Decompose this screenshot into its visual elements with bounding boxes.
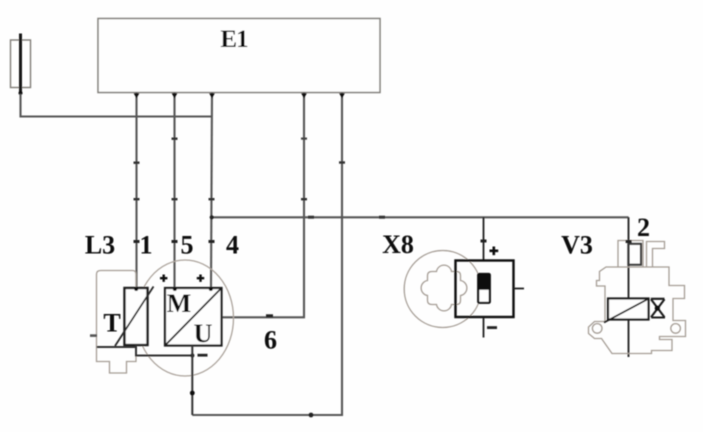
svg-text:6: 6 [264, 326, 277, 355]
svg-text:2: 2 [637, 213, 650, 242]
junction dot motor pin 4 [209, 287, 213, 291]
thermistor diagonal [115, 287, 154, 347]
tick wire 5 upper [339, 161, 345, 163]
branch wire to lighter X8 plus [483, 217, 485, 260]
wire 2 E1 pin to motor plus [173, 93, 175, 289]
tick wire 4 upper [301, 138, 307, 140]
svg-text:4: 4 [226, 231, 239, 260]
ECU box E1 [98, 19, 380, 93]
junction dot motor pin 5 [173, 287, 177, 291]
motor box diagonal [166, 289, 222, 346]
wire motor minus down [191, 346, 193, 416]
tick wire 2 middle [172, 198, 178, 200]
tick branch X8 [481, 240, 487, 243]
tick wire 2 upper [172, 138, 178, 140]
connector pin 2 terminal [628, 244, 641, 265]
valve V3 ear circle left [592, 324, 602, 334]
minus mark X8 [487, 326, 497, 329]
pin dot wire 2 [172, 93, 178, 98]
svg-text:V3: V3 [561, 231, 593, 260]
pump motor box M/U [165, 288, 222, 346]
tick V3 wire pin 2 [626, 240, 632, 243]
wire V3 drop [628, 217, 630, 357]
tick bus at 311 [308, 216, 314, 219]
stub X8 right [514, 288, 525, 290]
svg-text:M: M [167, 289, 192, 318]
pin dot wire 5 [339, 93, 345, 98]
fuse element line [19, 34, 22, 95]
junction dot bottom return [309, 413, 314, 418]
lighter X8 clover [421, 265, 467, 311]
pin dot wire 4 [301, 93, 307, 98]
fuse body [11, 40, 31, 88]
wire fuse to node on wire 3 [21, 94, 213, 117]
valve V3 ear circle right [671, 324, 681, 334]
sensor L3 connector outline [97, 271, 137, 374]
junction dot bus start [210, 215, 214, 219]
solenoid coil box [608, 299, 649, 320]
tick wire 3 middle [209, 198, 215, 200]
tick wire 1 pin 1 [134, 240, 140, 243]
tick wire 4 middle [301, 198, 307, 200]
svg-text:1: 1 [140, 231, 153, 260]
tick wire 1 upper [134, 162, 140, 164]
thermistor ground strap to case [97, 346, 136, 348]
svg-text:5: 5 [181, 231, 194, 260]
wire 3 E1 pin to motor top right [211, 93, 212, 289]
svg-text:E1: E1 [220, 26, 248, 53]
valve V3 silhouette [589, 241, 686, 354]
svg-text:T: T [103, 309, 120, 338]
tick wire 1 middle [134, 198, 140, 200]
fuse bottom junction dot [19, 91, 23, 95]
tick wire 2 pin 5 [172, 240, 178, 243]
heating element filled top [478, 274, 490, 290]
pin dot wire 3 [209, 93, 215, 98]
svg-text:X8: X8 [382, 230, 414, 259]
plus mark motor pin 4 [197, 275, 204, 282]
thermistor body [125, 288, 148, 345]
lighter heating element [478, 274, 490, 303]
valve symbol X [651, 299, 665, 318]
wire 4 E1 pin down and left into motor right side [222, 93, 305, 318]
pump housing circle [137, 260, 234, 376]
minus tab L3 [90, 334, 97, 337]
valve symbol X center blob [655, 306, 660, 311]
wire thermistor bottom to motor minus [136, 345, 192, 356]
bus wire from node 4 to valve V3 [212, 216, 629, 218]
tick wire 4 pin 6 [266, 314, 273, 317]
svg-text:U: U [194, 319, 213, 348]
wire 1 E1 pin to thermistor [135, 93, 137, 289]
junction dot motor minus [190, 391, 195, 396]
plus mark X8 [490, 247, 499, 256]
junction dot thermistor-motor minus [190, 354, 194, 358]
lighter X8 housing circle [404, 251, 481, 328]
solenoid coil diagonal [604, 299, 648, 323]
wire X8 bottom [483, 318, 485, 338]
pin dot wire 1 [134, 93, 140, 98]
junction dot thermistor top [134, 287, 138, 291]
lighter X8 box [456, 261, 514, 318]
minus mark motor [198, 354, 208, 357]
plus mark motor pin 5 [160, 275, 167, 282]
svg-text:L3: L3 [85, 231, 115, 260]
tick bus at 382 [379, 216, 385, 219]
tick wire 3 pin 4 [209, 240, 215, 243]
wire 5 E1 pin down to bottom return [192, 93, 342, 416]
